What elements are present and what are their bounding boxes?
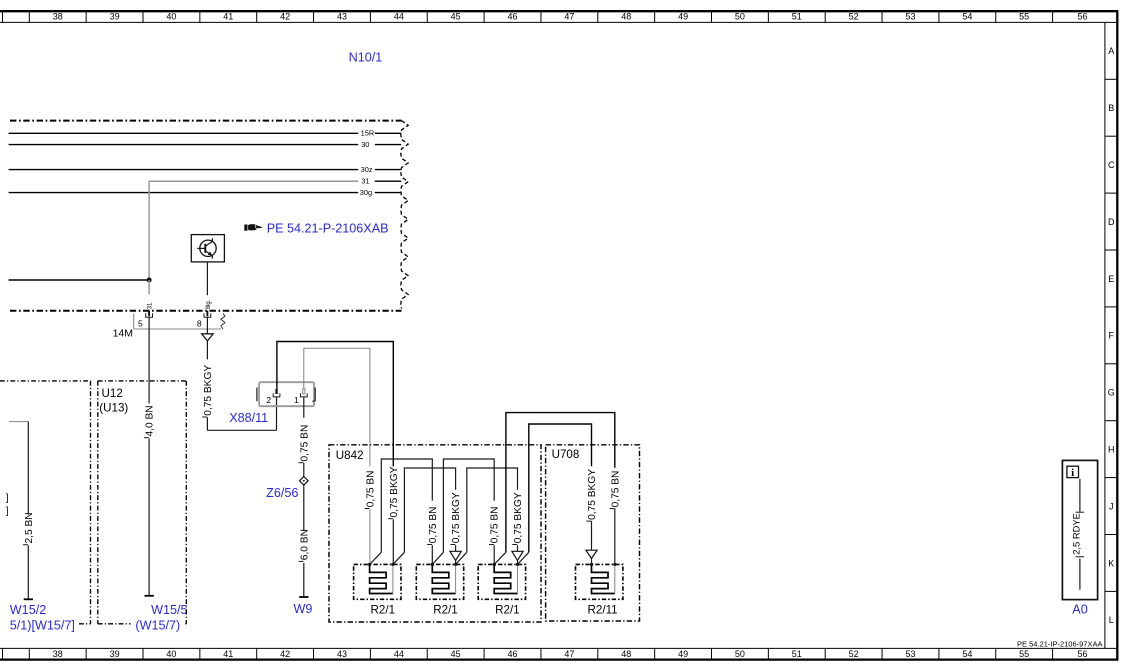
svg-text:5/1)[W15/7]: 5/1)[W15/7] — [10, 618, 75, 632]
svg-text:47: 47 — [564, 649, 574, 659]
svg-text:42: 42 — [280, 649, 290, 659]
svg-text:0,75 BKGY: 0,75 BKGY — [203, 365, 214, 416]
svg-text:56: 56 — [1077, 12, 1087, 22]
svg-text:41: 41 — [223, 649, 233, 659]
svg-text:48: 48 — [621, 649, 631, 659]
svg-text:44: 44 — [394, 12, 404, 22]
svg-text:46: 46 — [508, 649, 518, 659]
svg-text:PE 54.21-IP-2106-97XAA: PE 54.21-IP-2106-97XAA — [1017, 640, 1102, 649]
svg-text:43: 43 — [337, 12, 347, 22]
svg-text:44: 44 — [394, 649, 404, 659]
svg-text:0,75 BN: 0,75 BN — [610, 471, 621, 508]
svg-text:K: K — [1108, 558, 1114, 568]
svg-text:52: 52 — [849, 649, 859, 659]
svg-text:46: 46 — [508, 12, 518, 22]
svg-text:42: 42 — [280, 12, 290, 22]
svg-text:]: ] — [6, 506, 9, 517]
svg-text:i: i — [1071, 467, 1074, 479]
svg-text:U12: U12 — [102, 387, 123, 400]
svg-text:50: 50 — [735, 12, 745, 22]
svg-text:47: 47 — [564, 12, 574, 22]
svg-text:R2/1: R2/1 — [433, 604, 458, 617]
svg-text:0,75 BN: 0,75 BN — [299, 425, 310, 462]
svg-text:50: 50 — [735, 649, 745, 659]
svg-text:PE 54.21-P-2106XAB: PE 54.21-P-2106XAB — [267, 222, 389, 236]
svg-text:5: 5 — [138, 318, 143, 328]
svg-text:2,5 BN: 2,5 BN — [24, 512, 35, 543]
svg-text:49: 49 — [678, 12, 688, 22]
svg-text:30z: 30z — [361, 165, 373, 174]
svg-text:15R: 15R — [361, 129, 375, 138]
svg-text:14M: 14M — [113, 328, 133, 340]
svg-text:D: D — [1108, 217, 1115, 227]
svg-text:56: 56 — [1077, 649, 1087, 659]
svg-text:U842: U842 — [336, 449, 364, 462]
svg-text:52: 52 — [849, 12, 859, 22]
svg-text:0,75 BN: 0,75 BN — [365, 470, 376, 507]
svg-text:40: 40 — [166, 12, 176, 22]
svg-text:55: 55 — [1019, 12, 1029, 22]
svg-text:R2/1: R2/1 — [371, 604, 396, 617]
svg-text:39: 39 — [110, 649, 120, 659]
svg-text:30: 30 — [361, 140, 369, 149]
svg-text:6,0 BN: 6,0 BN — [299, 529, 310, 560]
svg-text:W15/2: W15/2 — [10, 603, 46, 617]
svg-text:45: 45 — [451, 649, 461, 659]
svg-text:C: C — [1108, 160, 1115, 170]
svg-text:L: L — [1109, 615, 1114, 625]
svg-text:2,5 RDYE: 2,5 RDYE — [1071, 513, 1082, 555]
svg-text:31: 31 — [361, 177, 369, 186]
svg-text:0,75 BKGY: 0,75 BKGY — [587, 469, 598, 520]
svg-text:U708: U708 — [552, 448, 580, 461]
svg-text:54: 54 — [962, 649, 972, 659]
svg-text:53: 53 — [905, 12, 915, 22]
svg-text:W9: W9 — [293, 602, 312, 616]
svg-text:51: 51 — [792, 12, 802, 22]
svg-text:4,0 BN: 4,0 BN — [145, 405, 156, 436]
svg-text:0,75 BN: 0,75 BN — [428, 506, 439, 543]
svg-text:1: 1 — [294, 395, 299, 405]
svg-text:E: E — [1108, 274, 1114, 284]
svg-text:H: H — [1108, 444, 1115, 454]
svg-text:0,75 BKGY: 0,75 BKGY — [451, 492, 462, 543]
svg-text:A: A — [1108, 46, 1114, 56]
svg-text:48: 48 — [621, 12, 631, 22]
svg-text:55: 55 — [1019, 649, 1029, 659]
svg-text:2: 2 — [266, 395, 271, 405]
svg-text:Z6/56: Z6/56 — [266, 486, 298, 500]
svg-text:W15/5: W15/5 — [151, 603, 187, 617]
svg-text:0,75 BKGY: 0,75 BKGY — [513, 492, 524, 543]
svg-text:A0: A0 — [1072, 603, 1087, 617]
svg-text:31: 31 — [148, 302, 154, 309]
svg-text:R2/11: R2/11 — [588, 604, 618, 617]
svg-text:38: 38 — [53, 649, 63, 659]
svg-text:49: 49 — [678, 649, 688, 659]
svg-text:F: F — [1108, 331, 1114, 341]
svg-text:X88/11: X88/11 — [229, 411, 268, 425]
svg-text:G: G — [1108, 388, 1115, 398]
svg-text:45: 45 — [451, 12, 461, 22]
svg-text:41: 41 — [223, 12, 233, 22]
svg-text:(W15/7): (W15/7) — [135, 618, 180, 632]
svg-text:J: J — [1109, 501, 1114, 511]
svg-text:N10/1: N10/1 — [349, 50, 383, 64]
svg-text:38: 38 — [53, 12, 63, 22]
svg-text:0,75 BN: 0,75 BN — [490, 506, 501, 543]
svg-text:]: ] — [6, 493, 9, 504]
svg-text:8lg.: 8lg. — [206, 299, 212, 309]
svg-text:54: 54 — [962, 12, 972, 22]
svg-text:53: 53 — [905, 649, 915, 659]
svg-text:8: 8 — [197, 318, 202, 328]
svg-text:B: B — [1108, 103, 1114, 113]
svg-text:43: 43 — [337, 649, 347, 659]
svg-text:39: 39 — [110, 12, 120, 22]
svg-text:40: 40 — [166, 649, 176, 659]
svg-text:30g: 30g — [360, 188, 372, 197]
svg-text:51: 51 — [792, 649, 802, 659]
svg-text:0,75 BKGY: 0,75 BKGY — [389, 466, 400, 517]
svg-text:R2/1: R2/1 — [495, 604, 520, 617]
svg-text:(U13): (U13) — [99, 402, 128, 415]
